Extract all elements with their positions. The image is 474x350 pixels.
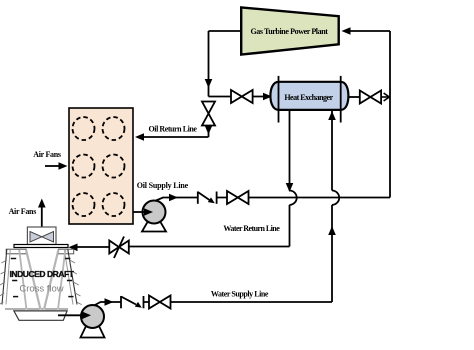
heat exchanger U1 <box>270 76 348 123</box>
check valve CV2 (water) <box>121 296 144 308</box>
cooling tower deck <box>14 245 68 248</box>
svg-text:Cross flow: Cross flow <box>19 284 63 295</box>
wire water return downcomer from heat exchanger <box>286 110 297 247</box>
valve V1 (heat exchanger oil inlet) <box>231 90 253 103</box>
wire riser top to turbine inlet <box>342 27 391 35</box>
cooling tower fill pack lines <box>19 250 65 310</box>
valve V4 (oil supply) <box>227 191 249 204</box>
wire cooler to oil pump <box>133 208 153 216</box>
cooling tower louvers right <box>70 260 82 305</box>
svg-text:Oil Supply Line: Oil Supply Line <box>137 181 189 190</box>
svg-text:Water Return Line: Water Return Line <box>223 224 280 233</box>
svg-text:Air Fans: Air Fans <box>9 207 37 216</box>
cooling tower louvers left <box>0 260 7 304</box>
water pump P2 <box>81 305 105 338</box>
cooling tower basin <box>14 311 67 320</box>
wire oil riser <box>389 31 391 198</box>
air fans arrow into cooler <box>45 162 68 170</box>
wire valve V3 to riser <box>381 93 389 101</box>
wire valve V2 to oil return line corner <box>205 126 213 138</box>
svg-text:Air Fans: Air Fans <box>33 150 61 159</box>
cooling tower distribution basins <box>6 249 74 254</box>
cooling tower inner dashes <box>11 259 74 297</box>
svg-text:INDUCED DRAFT: INDUCED DRAFT <box>9 269 74 279</box>
oil pump P1 <box>142 201 166 232</box>
wire water return line to tower <box>69 244 290 252</box>
wire junction to heat exchanger inlet <box>209 93 273 101</box>
valve V6 (water supply) <box>149 296 171 309</box>
svg-text:Heat Exchanger: Heat Exchanger <box>284 93 333 102</box>
valve V5 (water return, with slash) <box>109 237 129 259</box>
wire turbine outlet to riser top <box>209 30 242 32</box>
wire water supply riser to heat exchanger <box>328 111 339 303</box>
cooling tower body walls <box>2 249 77 309</box>
valve V3 (heat exchanger oil outlet) <box>360 91 381 104</box>
wire heat exchanger outlet <box>348 96 359 98</box>
valve V2 (vertical, oil cooler branch) <box>202 102 215 126</box>
svg-text:Water Supply Line: Water Supply Line <box>211 290 269 299</box>
svg-text:Gas Turbine Power Plant: Gas Turbine Power Plant <box>250 27 328 36</box>
wire water supply line <box>94 298 332 306</box>
wire oil return downcomer <box>205 31 213 97</box>
check valve CV1 (oil) <box>198 192 217 204</box>
wire oil supply line <box>156 194 390 202</box>
svg-text:Oil Return Line: Oil Return Line <box>149 125 198 134</box>
tower fan discharge arrow <box>38 199 46 228</box>
oil cooler (air fin cooler) <box>69 108 133 224</box>
gas turbine power plant <box>241 7 339 54</box>
wire oil return line into cooler <box>135 133 209 141</box>
cooling tower fan housing <box>27 227 56 245</box>
wire basin to water pump <box>58 312 91 320</box>
